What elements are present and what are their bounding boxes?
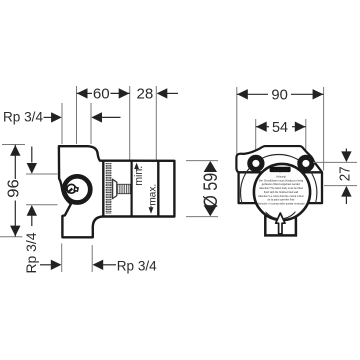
section line x=158.3 — [157, 162, 159, 216]
wire: extension line y=160.6 right — [186, 160, 218, 162]
svg-text:max.: max. — [147, 184, 158, 206]
svg-text:28: 28 — [137, 86, 154, 103]
wire: extension line x=92.2 (bottom port right) — [91, 245, 93, 272]
svg-text:min.: min. — [133, 166, 145, 186]
dimension diameter 59: arrows — [204, 161, 217, 172]
wire: extension line y=185.6 (27 bottom) — [324, 185, 357, 187]
svg-text:hansgrohe: hansgrohe — [272, 168, 289, 172]
svg-text:Attention! Le corps doit être: Attention! Le corps doit être monté à fl… — [258, 195, 304, 198]
svg-text:Ø 59: Ø 59 — [201, 173, 222, 208]
bottom leader arrow (left) — [93, 260, 104, 270]
section line x=131.6 — [131, 162, 133, 216]
svg-text:54: 54 — [272, 119, 288, 136]
svg-text:90: 90 — [271, 87, 288, 104]
wire: extension line x=129 (60/28 boundary) — [129, 86, 131, 160]
spindle screw flange — [113, 179, 117, 198]
max arrow — [149, 207, 154, 213]
wire: extension line y=236.8 (96 bottom) — [0, 236, 22, 238]
bottom port — [265, 200, 296, 235]
svg-text:Atención: el cuerpo debe queda: Atención: el cuerpo debe quedar enrasado — [257, 202, 305, 205]
svg-text:Der Grundkörper muss bündig zu: Der Grundkörper muss bündig zur fertig — [259, 179, 304, 182]
svg-text:96: 96 — [5, 179, 22, 198]
wire: extension line x=155.8 — [155, 86, 157, 160]
wire: extension line y=174 — [26, 173, 58, 175]
side port dimension: upper arrow (down) — [31, 147, 33, 163]
wire: extension line x=236.8 — [236, 87, 238, 168]
svg-text:Attention! The basic body must: Attention! The basic body must be fitted — [259, 187, 303, 190]
dimension 60: left arrow — [77, 88, 88, 98]
flow arrow in port — [276, 213, 285, 234]
spindle inner circle — [67, 184, 76, 193]
wire: extension line y=144.5 left (96 top) — [2, 144, 25, 146]
recess sag circle (thin) — [261, 180, 300, 219]
dome circle (thin, behind) — [241, 155, 317, 231]
dimension 60: line — [77, 92, 93, 94]
front body: top silhouette (ears + cap) — [236, 146, 322, 173]
left mounting ring — [250, 157, 262, 169]
svg-text:60: 60 — [93, 86, 110, 103]
dimension 28: outside arrow right — [157, 88, 168, 98]
svg-text:27: 27 — [336, 167, 353, 182]
svg-text:de la paroi carrelée finie: de la paroi carrelée finie — [268, 199, 295, 202]
svg-text:flush with the finished tiled: flush with the finished tiled wall — [264, 191, 299, 194]
side port outer ring — [64, 176, 90, 202]
wire: extension line x=91 (port bore right) — [90, 103, 92, 144]
dimension 60: right arrow — [119, 88, 130, 98]
dimension 27: arrows outside — [345, 149, 347, 153]
big face circle — [254, 164, 310, 220]
right mounting ring — [300, 157, 312, 169]
wire: extension line x=255.7 — [255, 119, 257, 151]
bottom left leader arrow (right) — [40, 264, 52, 266]
svg-text:Rp 3/4: Rp 3/4 — [23, 232, 39, 273]
wire: extension line x=305.8 — [305, 119, 307, 150]
spindle screw threaded shaft — [117, 184, 131, 193]
dimension 90 — [237, 93, 268, 95]
joint line between block and cylinder — [102, 162, 104, 216]
svg-text:gefliesten Wand eingebaut werd: gefliesten Wand eingebaut werden — [262, 183, 301, 186]
min arrow — [134, 163, 139, 169]
hansgrohe label pill — [270, 167, 291, 172]
wire: extension line x=323.6 — [323, 87, 325, 171]
wire: extension line x=62 (port bore left) — [61, 103, 63, 144]
dimension 96: line and arrows — [14, 145, 16, 179]
leader arrow to top port right — [91, 112, 102, 122]
front body: main flank rectangle — [239, 172, 322, 203]
leader arrow to top port left — [44, 116, 53, 118]
side port dimension: lower arrow (up) — [27, 205, 37, 216]
svg-text:Rp 3/4: Rp 3/4 — [117, 258, 157, 274]
svg-text:Rp 3/4: Rp 3/4 — [3, 108, 43, 124]
wire: extension line y=216.6 right — [186, 216, 218, 218]
dimension 54 — [256, 126, 269, 128]
spindle square nub — [74, 187, 78, 191]
wire: extension line x=61.7 (bottom port left) — [61, 244, 63, 273]
wire: extension line y=204.7 — [26, 204, 58, 206]
threaded band (hatch) — [106, 163, 111, 214]
spindle slot — [68, 189, 73, 193]
svg-text:Achtung!: Achtung! — [276, 175, 286, 178]
sticker text lines — [257, 175, 305, 205]
wire: extension line y=162.4 (27 top) — [313, 161, 357, 163]
wire: extension line x=76.5 (top port centerline) — [76, 86, 78, 144]
valve body outline (side view) — [59, 146, 174, 237]
